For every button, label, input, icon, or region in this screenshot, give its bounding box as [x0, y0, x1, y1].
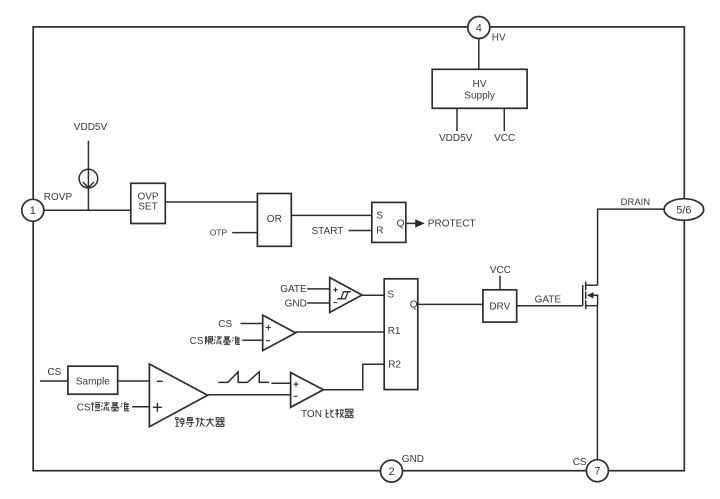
svg-text:VCC: VCC	[490, 265, 511, 276]
label TON 比较器	[301, 409, 354, 420]
TON comparator U7	[291, 373, 324, 408]
svg-text:S: S	[387, 290, 394, 301]
svg-text:DRAIN: DRAIN	[621, 197, 651, 208]
MOSFET Q1	[583, 282, 598, 310]
svg-text:S: S	[376, 210, 383, 221]
svg-text:2: 2	[388, 466, 394, 478]
svg-text:ROVP: ROVP	[44, 192, 73, 203]
arrowhead PROTECT	[415, 219, 425, 227]
current source I1	[79, 169, 98, 188]
svg-text:PROTECT: PROTECT	[428, 219, 476, 230]
wire OVP SET to OR	[165, 201, 257, 203]
wire schmitt to latch S	[362, 294, 384, 296]
wire VCC to DRV	[499, 276, 501, 290]
svg-text:CS: CS	[77, 403, 91, 414]
svg-text:GATE: GATE	[535, 294, 562, 305]
wire Q to PROTECT arrow	[406, 222, 416, 224]
DRV block	[483, 290, 517, 322]
svg-text:VDD5V: VDD5V	[439, 133, 473, 144]
svg-text:CS: CS	[573, 457, 587, 468]
svg-text:CS: CS	[190, 336, 204, 347]
SR latch U2 (protect)	[372, 202, 406, 242]
svg-text:7: 7	[594, 466, 600, 478]
wire comparator to latch R1	[296, 331, 385, 333]
svg-text:HV: HV	[473, 79, 487, 90]
wire CS const ref to gm amp	[132, 406, 149, 408]
pin 7 (CS)	[586, 460, 608, 482]
wire OTP to OR	[232, 232, 257, 234]
svg-text:1: 1	[30, 205, 36, 217]
svg-text:HV: HV	[492, 33, 506, 44]
wire GND to schmitt	[307, 302, 330, 304]
transconductance amplifier U6	[149, 364, 207, 427]
net label CS限流基准	[190, 336, 240, 347]
wire MOSFET drain to DRAIN node	[598, 209, 665, 285]
svg-text:VCC: VCC	[494, 133, 515, 144]
svg-text:Supply: Supply	[464, 91, 495, 102]
svg-text:R: R	[376, 226, 383, 237]
svg-text:OTP: OTP	[210, 227, 228, 237]
HV Supply block	[432, 69, 527, 108]
svg-text:CS: CS	[218, 319, 232, 330]
svg-text:START: START	[312, 226, 344, 237]
sawtooth waveform	[218, 372, 269, 383]
pin 5/6 (DRAIN)	[664, 199, 704, 221]
svg-text:VDD5V: VDD5V	[74, 122, 108, 133]
Sample block	[68, 366, 118, 394]
label 跨导放大器	[175, 417, 224, 426]
pin 1 (ROVP)	[22, 199, 44, 221]
wire VDD5V to ROVP node	[87, 141, 89, 211]
wire HV Supply VDD5V output	[456, 108, 458, 131]
wire HV Supply VCC output	[503, 108, 505, 131]
svg-text:4: 4	[476, 22, 482, 34]
svg-text:SET: SET	[138, 202, 157, 213]
wire CS to Sample	[40, 380, 68, 382]
svg-text:R1: R1	[388, 326, 401, 337]
svg-text:GATE: GATE	[280, 284, 307, 295]
svg-text:Q: Q	[397, 219, 405, 230]
svg-text:GND: GND	[285, 299, 307, 310]
svg-text:TON: TON	[301, 409, 322, 420]
svg-text:OR: OR	[267, 214, 282, 225]
wire ROVP to OVP SET	[44, 209, 131, 211]
pin 4 (HV)	[468, 17, 490, 39]
net label CS恒流基准	[77, 402, 129, 414]
wire START to latch R	[349, 230, 372, 232]
wire pin4 to HV Supply	[478, 38, 480, 69]
OR gate U1	[257, 194, 291, 247]
wire MOSFET source to pin 7	[596, 306, 598, 460]
schmitt trigger U3	[330, 278, 362, 313]
comparator U4 (CS limit)	[263, 315, 296, 351]
wire CS to comparator	[241, 323, 263, 325]
svg-text:Q: Q	[410, 300, 418, 311]
wire DRV to MOSFET gate	[517, 305, 583, 307]
wire CS limit ref to comparator	[242, 339, 262, 341]
OVP SET block	[131, 183, 166, 223]
SR latch U5 (main)	[384, 279, 418, 390]
wire GATE to schmitt	[307, 288, 330, 290]
wire latch Q to DRV	[418, 303, 483, 305]
wire Sample to gm amp	[118, 380, 150, 382]
wire TON comparator to latch R2	[323, 364, 384, 390]
pin 2 (GND)	[381, 460, 403, 482]
wire sawtooth to TON comparator	[271, 382, 290, 384]
wire gm amp to TON comparator	[208, 394, 291, 396]
svg-text:Sample: Sample	[76, 376, 110, 387]
svg-text:DRV: DRV	[489, 302, 510, 313]
svg-text:5/6: 5/6	[676, 205, 691, 217]
wire OR to latch S	[291, 214, 372, 216]
svg-text:R2: R2	[388, 359, 401, 370]
svg-text:GND: GND	[402, 454, 424, 465]
svg-text:CS: CS	[47, 367, 61, 378]
